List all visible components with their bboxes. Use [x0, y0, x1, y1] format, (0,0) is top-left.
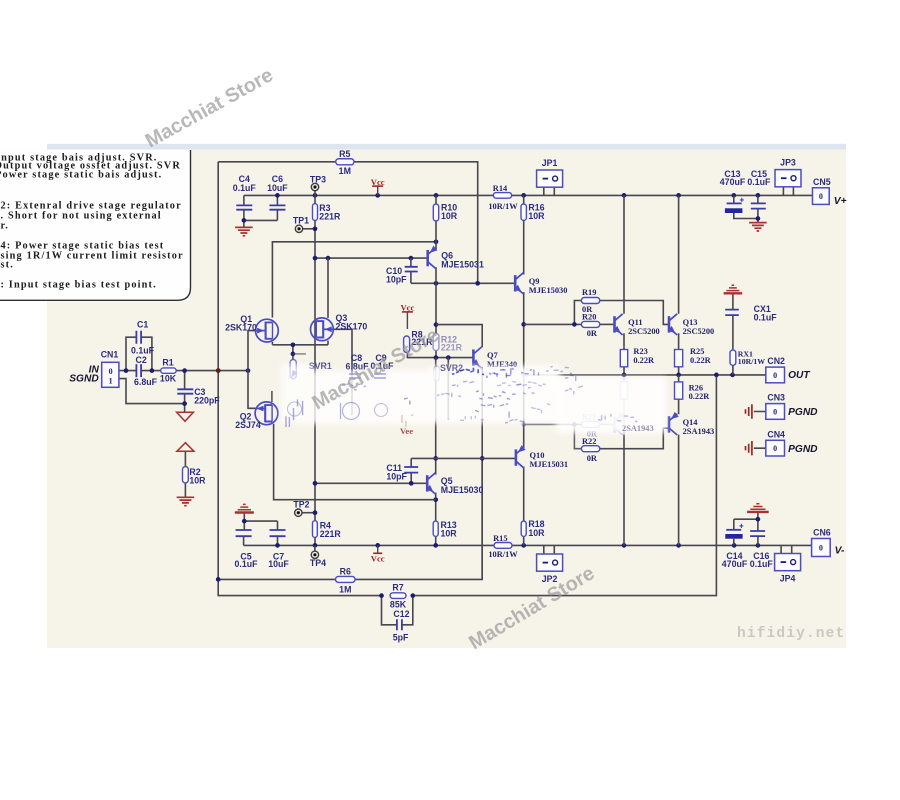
- svg-text:. Short for not using external: . Short for not using external: [1, 210, 162, 221]
- svg-text:TP2: TP2: [293, 500, 309, 510]
- svg-text:R6: R6: [340, 566, 351, 576]
- svg-text:Vcc: Vcc: [400, 303, 414, 313]
- svg-text:2SK170: 2SK170: [336, 321, 368, 331]
- svg-text:0R: 0R: [587, 329, 598, 338]
- svg-text:5pF: 5pF: [393, 633, 409, 643]
- svg-text:0: 0: [773, 407, 777, 416]
- svg-text:R19: R19: [582, 288, 596, 297]
- svg-text:JP4: JP4: [780, 574, 796, 584]
- svg-text:PGND: PGND: [788, 407, 818, 418]
- svg-text:2SC5200: 2SC5200: [628, 327, 660, 336]
- svg-text:CN6: CN6: [813, 528, 831, 538]
- svg-text:MJE15031: MJE15031: [441, 260, 484, 270]
- svg-text:V+: V+: [834, 196, 847, 207]
- svg-text:0R: 0R: [587, 454, 598, 463]
- svg-text:R22: R22: [582, 437, 596, 446]
- svg-text:10pF: 10pF: [386, 471, 407, 481]
- svg-text:R15: R15: [493, 534, 507, 543]
- svg-text:10R: 10R: [441, 529, 458, 539]
- svg-text:+: +: [740, 196, 745, 205]
- svg-text:CN5: CN5: [813, 177, 831, 187]
- svg-text:1M: 1M: [339, 584, 351, 594]
- svg-text:V-: V-: [835, 546, 845, 557]
- svg-text:C2: C2: [136, 355, 147, 365]
- svg-text:0: 0: [109, 367, 113, 376]
- svg-text:0: 0: [819, 544, 823, 553]
- svg-text:Q7: Q7: [487, 351, 498, 360]
- svg-text:0.1uF: 0.1uF: [131, 346, 155, 356]
- svg-text:Vcc: Vcc: [371, 177, 385, 187]
- svg-text:CN2: CN2: [767, 356, 785, 366]
- svg-text:221R: 221R: [319, 211, 341, 221]
- svg-text:R14: R14: [493, 184, 508, 193]
- svg-text:PGND: PGND: [788, 444, 818, 455]
- svg-text:0: 0: [819, 192, 823, 201]
- svg-text:10pF: 10pF: [386, 275, 407, 285]
- svg-text:10R: 10R: [528, 528, 545, 538]
- svg-text:R25: R25: [690, 347, 704, 356]
- svg-text:221R: 221R: [441, 342, 463, 352]
- svg-text:TP4: TP4: [310, 558, 326, 568]
- svg-text:0.22R: 0.22R: [690, 356, 712, 365]
- svg-text:0: 0: [773, 444, 777, 453]
- svg-text:Q9: Q9: [529, 277, 540, 286]
- svg-text:10R: 10R: [441, 211, 458, 221]
- svg-text:10R: 10R: [189, 476, 206, 486]
- svg-text:0.22R: 0.22R: [633, 356, 655, 365]
- svg-text:R23: R23: [633, 347, 647, 356]
- svg-text:10uF: 10uF: [267, 183, 288, 193]
- svg-text:10uF: 10uF: [268, 559, 289, 569]
- svg-text:221R: 221R: [320, 529, 342, 539]
- svg-text:+: +: [739, 522, 744, 531]
- svg-text:1M: 1M: [339, 166, 351, 176]
- svg-text:TP3: TP3: [310, 174, 326, 184]
- svg-text:JP1: JP1: [542, 158, 558, 168]
- svg-text:R5: R5: [339, 149, 350, 159]
- svg-text:SVR2: SVR2: [440, 363, 463, 373]
- svg-text:JP3: JP3: [780, 158, 796, 168]
- svg-text:10R/1W: 10R/1W: [738, 357, 765, 366]
- svg-text:SGND: SGND: [69, 374, 99, 385]
- svg-text:R1: R1: [162, 357, 173, 367]
- svg-text:hifidiy.net: hifidiy.net: [737, 626, 845, 642]
- svg-text:0.1uF: 0.1uF: [233, 183, 257, 193]
- svg-text:Power stage static bais adjus: Power stage static bais adjust.: [0, 170, 162, 181]
- svg-text:SVR1: SVR1: [309, 361, 332, 371]
- svg-text:MJE15030: MJE15030: [529, 286, 568, 295]
- svg-text:CN3: CN3: [767, 393, 785, 403]
- svg-text:10R/1W: 10R/1W: [488, 550, 518, 559]
- svg-text:85K: 85K: [390, 599, 407, 609]
- svg-text:2SK170: 2SK170: [225, 323, 257, 333]
- svg-text:2SA1943: 2SA1943: [683, 427, 715, 436]
- svg-text:6.8uF: 6.8uF: [134, 377, 158, 387]
- svg-text:C12: C12: [393, 609, 409, 619]
- svg-text:sing 1R/1W current limit resis: sing 1R/1W current limit resistor: [1, 250, 184, 261]
- svg-text:2SJ74: 2SJ74: [235, 420, 261, 430]
- svg-text:R7: R7: [392, 583, 403, 593]
- svg-text:10K: 10K: [160, 374, 177, 384]
- svg-text:r.: r.: [1, 220, 10, 231]
- svg-text:Vcc: Vcc: [371, 554, 385, 564]
- svg-text:1: 1: [109, 376, 113, 385]
- svg-text:st.: st.: [1, 259, 14, 270]
- svg-text:Q13: Q13: [683, 318, 698, 327]
- svg-text:CN4: CN4: [767, 429, 785, 439]
- svg-text:R20: R20: [582, 312, 596, 321]
- svg-text:Q10: Q10: [530, 451, 545, 460]
- svg-text:Vee: Vee: [400, 426, 413, 436]
- svg-text:10R/1W: 10R/1W: [488, 202, 518, 211]
- svg-text:CN1: CN1: [101, 350, 119, 360]
- svg-text:MJE15030: MJE15030: [441, 485, 484, 495]
- svg-text:0: 0: [773, 371, 777, 380]
- svg-text:MJE15031: MJE15031: [530, 460, 569, 469]
- svg-text:0.1uF: 0.1uF: [747, 177, 771, 187]
- svg-text:220pF: 220pF: [194, 396, 220, 406]
- svg-text:470uF: 470uF: [720, 177, 746, 187]
- svg-text:0.1uF: 0.1uF: [754, 313, 778, 323]
- svg-text:: Input stage bias test point.: : Input stage bias test point.: [1, 280, 157, 291]
- svg-text:2SA1943: 2SA1943: [622, 424, 654, 433]
- svg-text:C1: C1: [137, 319, 148, 329]
- svg-text:Q14: Q14: [683, 418, 699, 427]
- svg-text:Q11: Q11: [628, 318, 642, 327]
- svg-text:OUT: OUT: [788, 370, 810, 381]
- svg-text:0.22R: 0.22R: [689, 392, 711, 401]
- svg-text:0.1uF: 0.1uF: [750, 559, 774, 569]
- svg-text:10R: 10R: [528, 211, 545, 221]
- svg-text:0.1uF: 0.1uF: [235, 559, 259, 569]
- svg-text:2SC5200: 2SC5200: [683, 327, 715, 336]
- svg-text:TP1: TP1: [293, 216, 309, 226]
- svg-text:470uF: 470uF: [722, 559, 748, 569]
